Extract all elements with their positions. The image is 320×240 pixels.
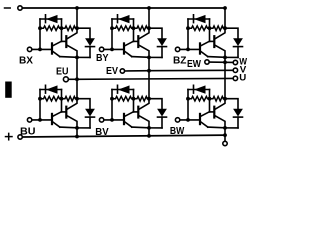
svg-text:BV: BV [95, 126, 108, 138]
svg-text:EW: EW [187, 58, 201, 70]
node: bus dot [75, 6, 79, 10]
transistor Q2 BZ output base bar [213, 36, 215, 47]
transistor Q1 BX collector lead [53, 41, 62, 46]
node: R1/R2 mid dot [60, 97, 64, 101]
transistor Q2 BV emitter lead [139, 116, 149, 128]
BX base terminal circle [27, 47, 31, 51]
node: BY emitter dot [147, 56, 151, 60]
node: BZ emitter dot [223, 56, 227, 60]
node: collector dot [75, 26, 79, 30]
transistor Q2 BU emitter lead [67, 116, 77, 128]
wire: V emitter to + bus [148, 128, 150, 136]
wire: BU emitter bottom line [60, 126, 90, 129]
resistor R2 BZ [210, 26, 226, 31]
wire: BY emitter bottom line [132, 56, 162, 59]
wire: Q2 BZ base link [210, 40, 214, 42]
node: collector dot [75, 97, 79, 101]
node: R1/R2 mid dot [132, 26, 136, 30]
wire: FW-BY bottom lead [161, 47, 163, 58]
wire: BY collector to bus [148, 8, 150, 28]
wire: W emitter to + bus and terminal [224, 128, 226, 141]
svg-text:BY: BY [96, 52, 109, 64]
diode D-BX speed-up triangle [46, 15, 58, 23]
svg-text:U: U [239, 73, 246, 84]
node: BV emitter dot [147, 126, 151, 130]
transistor Q2 BY emitter lead [139, 45, 149, 57]
BV input base wire [104, 119, 123, 121]
node: R1/R2 mid dot [208, 97, 212, 101]
BY base terminal circle [99, 47, 103, 51]
svg-text:BW: BW [170, 125, 184, 137]
resistor R1 BV [112, 96, 134, 101]
terminal EU circle [63, 77, 68, 82]
node: R1 left dot [38, 26, 42, 30]
wire: BY freewheel diode feed [149, 28, 162, 38]
wire: FW-BU bottom lead [89, 117, 91, 128]
node: R1/R2 mid dot [60, 26, 64, 30]
diode D-BZ speed-up cathode bar [193, 15, 195, 23]
transistor Q2 BW output base bar [213, 107, 215, 118]
wire: phase W vertical [224, 57, 226, 98]
svg-text:EU: EU [56, 66, 69, 78]
diode D-BV speed-up triangle [118, 85, 130, 93]
transistor Q2 BU output base bar [65, 107, 67, 118]
svg-text:BU: BU [20, 126, 36, 138]
wire: phase W output line [225, 61, 233, 63]
transistor Q1 BU collector lead [53, 112, 62, 117]
transistor Q1 BY collector lead [125, 41, 134, 46]
transistor Q2 BW emitter lead [215, 116, 225, 128]
wire: BV emitter bottom line [132, 126, 162, 129]
diode FW-BX cathode bar [86, 46, 95, 48]
wire: BU speed-up diode loop top [40, 89, 62, 91]
node: bus dot [147, 6, 151, 10]
BZ input base wire [180, 48, 199, 50]
transistor Q2 BU collector lead [67, 99, 77, 110]
transistor Q1 BZ driver base bar [199, 43, 201, 53]
node: R1/R2 mid dot [132, 97, 136, 101]
svg-text:EV: EV [106, 65, 118, 77]
wire: phase V output line [149, 69, 233, 71]
wire: EU to U line [68, 78, 77, 80]
wire: BU base-node vertical [39, 90, 41, 120]
wire: Q2 BV base link [134, 111, 138, 113]
node: bus dot [223, 6, 227, 10]
node: R1 left dot [110, 97, 114, 101]
node: EV dot [147, 69, 151, 73]
diode FW-BV triangle [157, 109, 167, 117]
wire: BZ freewheel diode feed [225, 28, 238, 38]
diode D-BZ speed-up triangle [194, 15, 206, 23]
terminal EW circle [205, 60, 209, 64]
diode D-BY speed-up triangle [118, 15, 130, 23]
BW base terminal circle [175, 118, 179, 122]
node: collector dot [223, 26, 227, 30]
resistor R1 BX [40, 26, 62, 31]
resistor R1 BW [188, 96, 210, 101]
wire: BX collector to bus [76, 8, 78, 28]
node: EW dot [223, 60, 227, 64]
wire: Q2 BU base link [62, 111, 66, 113]
wire: BV base-node vertical [111, 90, 113, 120]
wire: BY mid-node vertical [133, 19, 135, 41]
positive DC bus rail [22, 135, 225, 137]
BW input base wire [180, 119, 199, 121]
diode FW-BX triangle [85, 38, 95, 46]
node: R1 left dot [38, 97, 42, 101]
wire: BV speed-up diode loop top [112, 89, 134, 91]
wire: Q2 BX base link [62, 40, 66, 42]
node: R1 left dot [186, 26, 190, 30]
diode D-BX speed-up cathode bar [45, 15, 47, 23]
node: BV base junction dot [110, 118, 114, 122]
transistor Q1 BV collector lead [125, 112, 134, 117]
diode FW-BY cathode bar [158, 46, 167, 48]
resistor R2 BU [62, 96, 78, 101]
node: BW base junction dot [186, 118, 190, 122]
transistor Q2 BX output base bar [65, 36, 67, 47]
node: BX emitter dot [75, 56, 79, 60]
node: BY base junction dot [110, 48, 114, 52]
minus sign [5, 7, 11, 9]
transistor Q1 BV emitter lead [125, 122, 132, 127]
wire: BU freewheel diode feed [77, 99, 90, 109]
wire: BY base-node vertical [111, 19, 113, 49]
wire: FW-BZ bottom lead [237, 47, 239, 58]
wire: BX base-node vertical [39, 19, 41, 49]
wire: BX freewheel diode feed [77, 28, 90, 38]
node: +bus dot W [223, 133, 227, 137]
svg-text:BX: BX [19, 55, 33, 67]
diode FW-BW triangle [233, 109, 243, 117]
svg-text:BZ: BZ [173, 55, 187, 67]
diode FW-BW cathode bar [234, 116, 243, 118]
transistor Q1 BZ emitter lead [201, 52, 208, 57]
transistor Q2 BY output base bar [137, 36, 139, 47]
node: +bus dot V [147, 134, 151, 138]
wire: BX emitter bottom line [60, 56, 90, 59]
transistor Q2 BV collector lead [139, 99, 149, 110]
diode FW-BZ triangle [233, 38, 243, 46]
resistor R2 BV [134, 96, 150, 101]
wire: BW freewheel diode feed [225, 99, 238, 109]
wire: phase V vertical [148, 57, 150, 98]
diode D-BU speed-up cathode bar [45, 85, 47, 93]
transistor Q1 BX driver base bar [51, 43, 53, 53]
diode FW-BV cathode bar [158, 116, 167, 118]
wire: BU mid-node vertical [61, 90, 63, 112]
negative DC bus rail [22, 7, 225, 9]
resistor R2 BX [62, 26, 78, 31]
black index bar [5, 82, 12, 98]
plus sign [6, 136, 13, 138]
transistor Q2 BY collector lead [139, 28, 149, 39]
transistor Q1 BV driver base bar [123, 114, 125, 124]
BV base terminal circle [99, 118, 103, 122]
wire: BZ collector to bus [224, 8, 226, 28]
node: collector dot [147, 26, 151, 30]
terminal V circle [233, 68, 237, 72]
resistor R2 BY [134, 26, 150, 31]
BX input base wire [32, 48, 51, 50]
wire: BZ emitter bottom line [208, 56, 238, 59]
BU input base wire [32, 119, 51, 121]
wire: BW speed-up diode loop top [188, 89, 210, 91]
wire: phase U vertical [76, 57, 78, 98]
diode FW-BZ cathode bar [234, 46, 243, 48]
node: R1 left dot [186, 97, 190, 101]
wire: U emitter to + bus [76, 128, 78, 137]
terminal W circle [233, 60, 237, 64]
wire: Q2 BY base link [134, 40, 138, 42]
wire: BV freewheel diode feed [149, 99, 162, 109]
diode FW-BU cathode bar [86, 116, 95, 118]
wire: BX mid-node vertical [61, 19, 63, 41]
wire: Q2 BW base link [210, 111, 214, 113]
node: R1/R2 mid dot [208, 26, 212, 30]
resistor R1 BZ [188, 26, 210, 31]
transistor Q1 BX emitter lead [53, 52, 60, 57]
bottom-right terminal [223, 141, 227, 145]
wire: BW emitter bottom line [208, 126, 238, 129]
node: BZ base junction dot [186, 48, 190, 52]
node: +bus dot U [75, 135, 79, 139]
wire: BW base-node vertical [187, 90, 189, 120]
node: BU emitter dot [75, 126, 79, 130]
diode D-BW speed-up triangle [194, 85, 206, 93]
BY input base wire [104, 48, 123, 50]
transistor Q2 BV output base bar [137, 107, 139, 118]
wire: BZ base-node vertical [187, 19, 189, 49]
positive bus terminal [18, 135, 22, 139]
wire: BW mid-node vertical [209, 90, 211, 112]
transistor Q2 BX collector lead [67, 28, 77, 39]
node: collector dot [223, 97, 227, 101]
transistor Q1 BU driver base bar [51, 114, 53, 124]
transistor Q2 BW collector lead [215, 99, 225, 110]
diode FW-BU triangle [85, 109, 95, 117]
node: BW emitter dot [223, 126, 227, 130]
resistor R2 BW [210, 96, 226, 101]
wire: BX speed-up diode loop top [40, 18, 62, 20]
wire: EW to W line [209, 61, 225, 63]
terminal U circle [233, 76, 237, 80]
transistor Q1 BW collector lead [201, 112, 210, 117]
node: R1 left dot [110, 26, 114, 30]
wire: FW-BV bottom lead [161, 117, 163, 128]
transistor Q1 BZ collector lead [201, 41, 210, 46]
node: BU base junction dot [38, 118, 42, 122]
node: EU dot [75, 77, 79, 81]
resistor R1 BY [112, 26, 134, 31]
BZ base terminal circle [175, 47, 179, 51]
node: collector dot [147, 97, 151, 101]
diode D-BY speed-up cathode bar [117, 15, 119, 23]
diode FW-BY triangle [157, 38, 167, 46]
node: BX base junction dot [38, 48, 42, 52]
wire: phase U output line [77, 77, 233, 80]
diode D-BV speed-up cathode bar [117, 85, 119, 93]
transistor Q1 BW driver base bar [199, 114, 201, 124]
wire: BY speed-up diode loop top [112, 18, 134, 20]
wire: BZ speed-up diode loop top [188, 18, 210, 20]
transistor Q1 BY driver base bar [123, 43, 125, 53]
transistor Q1 BY emitter lead [125, 52, 132, 57]
transistor Q1 BU emitter lead [53, 122, 60, 127]
diode D-BU speed-up triangle [46, 85, 58, 93]
wire: BV mid-node vertical [133, 90, 135, 112]
resistor R1 BU [40, 96, 62, 101]
negative bus terminal [18, 6, 22, 10]
transistor Q1 BW emitter lead [201, 122, 208, 127]
wire: FW-BW bottom lead [237, 117, 239, 128]
transistor Q2 BZ collector lead [215, 28, 225, 39]
diode D-BW speed-up cathode bar [193, 85, 195, 93]
wire: EV to V line [125, 70, 149, 72]
transistor Q2 BZ emitter lead [215, 45, 225, 57]
terminal EV circle [120, 69, 124, 73]
wire: FW-BX bottom lead [89, 47, 91, 58]
BU base terminal circle [27, 118, 31, 122]
transistor Q2 BX emitter lead [67, 45, 77, 57]
wire: BZ mid-node vertical [209, 19, 211, 41]
